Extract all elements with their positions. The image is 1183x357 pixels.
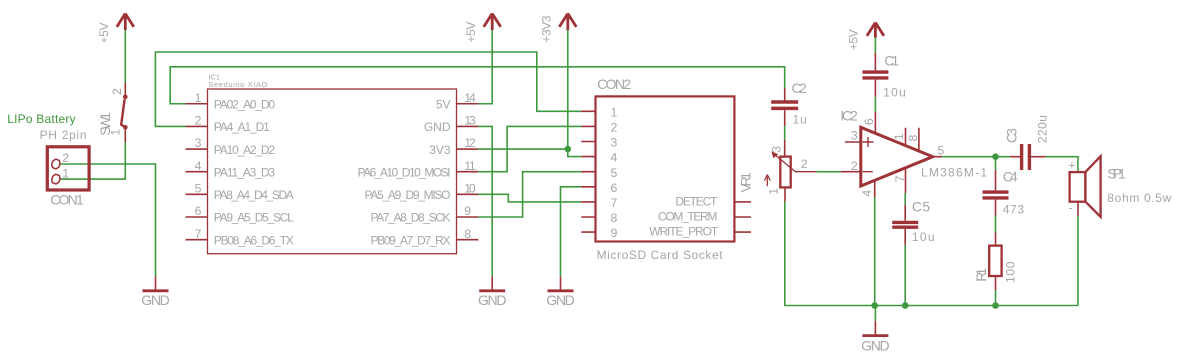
wire ground rail to GND (874, 306, 876, 322)
svg-text:3: 3 (195, 136, 202, 150)
svg-text:1u: 1u (793, 112, 807, 126)
capacitor C2 (771, 80, 807, 126)
connector CON2 MicroSD Card Socket box (596, 76, 735, 262)
wire C1 to IC2 pin 6 (874, 97, 876, 112)
wire C5 to ground rail (904, 245, 906, 306)
svg-text:GND: GND (861, 337, 890, 353)
svg-text:12: 12 (464, 136, 476, 150)
capacitor C1 (862, 53, 905, 100)
svg-text:8: 8 (906, 135, 920, 142)
svg-text:PA7_A8_D8_SCK: PA7_A8_D8_SCK (371, 211, 451, 225)
svg-text:11: 11 (464, 159, 476, 173)
svg-text:220u: 220u (1036, 115, 1050, 143)
CON2 left pin stubs 1-9 (581, 111, 595, 232)
svg-text:CON2: CON2 (597, 76, 631, 92)
svg-text:PA11_A3_D3: PA11_A3_D3 (214, 165, 276, 179)
svg-text:IC2: IC2 (840, 107, 858, 123)
svg-text:3: 3 (769, 146, 783, 153)
wire +5V to IC1 pin 14 (478, 30, 492, 103)
svg-text:4: 4 (860, 190, 874, 197)
svg-text:+5V: +5V (464, 22, 478, 43)
svg-text:PA9_A5_D5_SCL: PA9_A5_D5_SCL (214, 211, 294, 225)
svg-text:473: 473 (1003, 202, 1025, 216)
wire CON2 pin 2 to IC1 pin 11 (MOSI) (478, 126, 581, 171)
svg-text:5V: 5V (436, 98, 451, 112)
svg-text:+5V: +5V (846, 29, 860, 50)
svg-text:PA02_A0_D0: PA02_A0_D0 (214, 98, 276, 112)
svg-text:PA6_A10_D10_MOSI: PA6_A10_D10_MOSI (358, 165, 451, 179)
svg-text:5: 5 (937, 144, 944, 158)
wire C2 to VR1 (784, 126, 786, 140)
svg-text:4: 4 (611, 151, 618, 165)
svg-text:C4: C4 (1003, 169, 1018, 185)
wire VR1 bottom to ground rail (785, 201, 1078, 305)
CON2 right pin names (649, 194, 719, 238)
svg-text:8: 8 (611, 211, 618, 225)
supply symbol +5V (IC1 5V pin) (464, 14, 501, 43)
svg-text:6: 6 (611, 181, 618, 195)
svg-text:2: 2 (62, 151, 69, 165)
svg-text:GND: GND (478, 292, 507, 308)
svg-text:C5: C5 (912, 198, 930, 214)
svg-text:8: 8 (464, 227, 471, 241)
IC1 left pin stubs 1-7 (186, 104, 208, 240)
node rail junction (C5) (902, 302, 909, 309)
svg-text:13: 13 (464, 114, 476, 128)
svg-text:CON1: CON1 (50, 192, 84, 208)
svg-text:100: 100 (1003, 261, 1017, 283)
svg-text:+3V3: +3V3 (540, 15, 554, 42)
wire IC1 pin 9 (SCK) to CON2 pin 5 (478, 172, 581, 217)
op-amp IC2 LM386M-1 (840, 107, 987, 197)
IC1 left pin numbers (195, 91, 202, 241)
potentiometer VR1 (764, 140, 816, 202)
ground GND (CON2) (546, 276, 575, 308)
wire CON1 pin 2 to GND (60, 164, 155, 276)
node 3V3 junction (565, 146, 572, 153)
node output junction (992, 153, 999, 160)
CON2 right pin stubs DETECT/COM_TERM/WRITE_PROT (734, 202, 751, 232)
connector CON1 (PH 2pin battery connector) (7, 112, 89, 208)
svg-text:2: 2 (851, 159, 858, 173)
svg-text:6: 6 (195, 204, 202, 218)
svg-text:PB08_A6_D6_TX: PB08_A6_D6_TX (214, 233, 294, 247)
svg-text:R1: R1 (973, 267, 989, 281)
supply symbol +3V3 (540, 14, 577, 43)
svg-text:10u: 10u (912, 230, 935, 244)
wire R1 to ground rail (995, 291, 997, 306)
ground GND (IC1) (478, 276, 507, 308)
svg-text:1: 1 (766, 188, 780, 195)
svg-text:7: 7 (195, 227, 202, 241)
supply symbol +5V (left) (97, 14, 134, 44)
switch SW1 (97, 83, 128, 142)
svg-text:8ohm 0.5w: 8ohm 0.5w (1107, 191, 1171, 205)
svg-text:WRITE_PROT: WRITE_PROT (649, 225, 719, 239)
svg-text:LIPo Battery: LIPo Battery (7, 112, 75, 126)
wire IC2 pin 5 output to node (942, 156, 1010, 158)
IC1 right pin numbers (464, 91, 476, 241)
IC1 right pin names (358, 98, 451, 248)
wire node to C4 (995, 157, 997, 171)
svg-text:SP1: SP1 (1107, 165, 1126, 181)
ground GND (battery) (141, 276, 170, 308)
wire +3V3 to IC1 pin 12 and CON2 pin 4 (568, 30, 581, 156)
svg-text:14: 14 (464, 91, 476, 105)
wire IC1 pin 1 (DAC A0) to C2 (170, 67, 785, 104)
wire VR1 wiper to IC2 pin 2 (816, 171, 841, 173)
svg-text:PA10_A2_D2: PA10_A2_D2 (214, 143, 276, 157)
wire IC1 pin 13 to GND (478, 126, 492, 276)
IC1 left pin names (214, 98, 294, 248)
svg-text:PA5_A9_D9_MISO: PA5_A9_D9_MISO (365, 188, 451, 202)
svg-text:COM_TERM: COM_TERM (658, 209, 717, 223)
svg-text:GND: GND (424, 120, 451, 134)
svg-text:-: - (1068, 200, 1072, 214)
svg-text:+5V: +5V (97, 23, 111, 44)
svg-text:9: 9 (464, 204, 471, 218)
wire C3 to SP1 (1046, 157, 1078, 172)
supply symbol +5V (amp) (846, 23, 884, 51)
wire IC1 pin 2 to CON2 pin 1 (155, 52, 581, 126)
svg-text:10u: 10u (883, 86, 906, 100)
svg-text:PA4_A1_D1: PA4_A1_D1 (214, 120, 270, 134)
svg-text:10: 10 (464, 182, 476, 196)
svg-text:7: 7 (893, 175, 907, 182)
wire SP1 to ground rail (1077, 202, 1079, 306)
wire +5V to SW1 (124, 30, 126, 83)
resistor R1 (973, 233, 1017, 291)
svg-text:LM386M-1: LM386M-1 (921, 165, 987, 179)
svg-text:1: 1 (195, 91, 202, 105)
wire IC1 pin 10 (MISO) to CON2 pin 7 (478, 194, 581, 202)
capacitor C3 (1003, 115, 1049, 170)
svg-text:2: 2 (801, 157, 808, 171)
wire SW1 to CON1 pin 1 (60, 142, 125, 179)
svg-text:2: 2 (110, 88, 124, 95)
speaker SP1 (1068, 156, 1171, 217)
svg-text:3: 3 (611, 136, 618, 150)
wire +5V to C1 (874, 38, 876, 53)
wire CON2 pin 6 to GND (561, 187, 582, 276)
wire C4 to R1 (995, 216, 997, 233)
svg-text:9: 9 (611, 226, 618, 240)
svg-text:MicroSD Card Socket: MicroSD Card Socket (597, 248, 724, 262)
svg-text:7: 7 (611, 196, 618, 210)
svg-text:DETECT: DETECT (675, 194, 718, 208)
svg-text:PA8_A4_D4_SDA: PA8_A4_D4_SDA (214, 188, 294, 202)
svg-text:C3: C3 (1003, 128, 1019, 143)
svg-text:3: 3 (851, 128, 858, 142)
IC1 right pin stubs 14-8 (457, 104, 479, 240)
wire IC2 pin 4 to ground rail (874, 197, 876, 306)
svg-text:C1: C1 (884, 53, 899, 69)
capacitor C5 (892, 198, 934, 245)
svg-text:1: 1 (62, 167, 69, 181)
ground GND (amp) (861, 321, 890, 353)
node rail junction (IC2 pin4) (871, 302, 878, 309)
svg-text:VR1: VR1 (738, 172, 754, 193)
capacitor C4 (983, 169, 1025, 217)
svg-text:3V3: 3V3 (429, 143, 451, 157)
svg-text:GND: GND (546, 292, 575, 308)
svg-text:Seeduino XIAO: Seeduino XIAO (208, 80, 267, 89)
IC U1 Seeeduino XIAO box (208, 73, 457, 254)
svg-text:2: 2 (611, 121, 618, 135)
svg-text:2: 2 (195, 114, 202, 128)
svg-text:+: + (1068, 158, 1075, 172)
svg-text:PB09_A7_D7_RX: PB09_A7_D7_RX (371, 233, 451, 247)
wire IC2 pin 7 to C5 (904, 193, 906, 205)
svg-text:4: 4 (195, 159, 202, 173)
svg-text:1: 1 (892, 133, 906, 140)
svg-text:5: 5 (611, 166, 618, 180)
svg-text:6: 6 (862, 118, 876, 125)
svg-text:C2: C2 (792, 80, 808, 96)
node rail junction (R1) (992, 302, 999, 309)
CON2 pin numbers (611, 105, 618, 240)
svg-text:PH 2pin: PH 2pin (40, 128, 87, 142)
svg-text:1: 1 (611, 105, 618, 119)
svg-text:GND: GND (141, 292, 170, 308)
svg-text:5: 5 (195, 182, 202, 196)
svg-text:SW1: SW1 (97, 112, 113, 136)
